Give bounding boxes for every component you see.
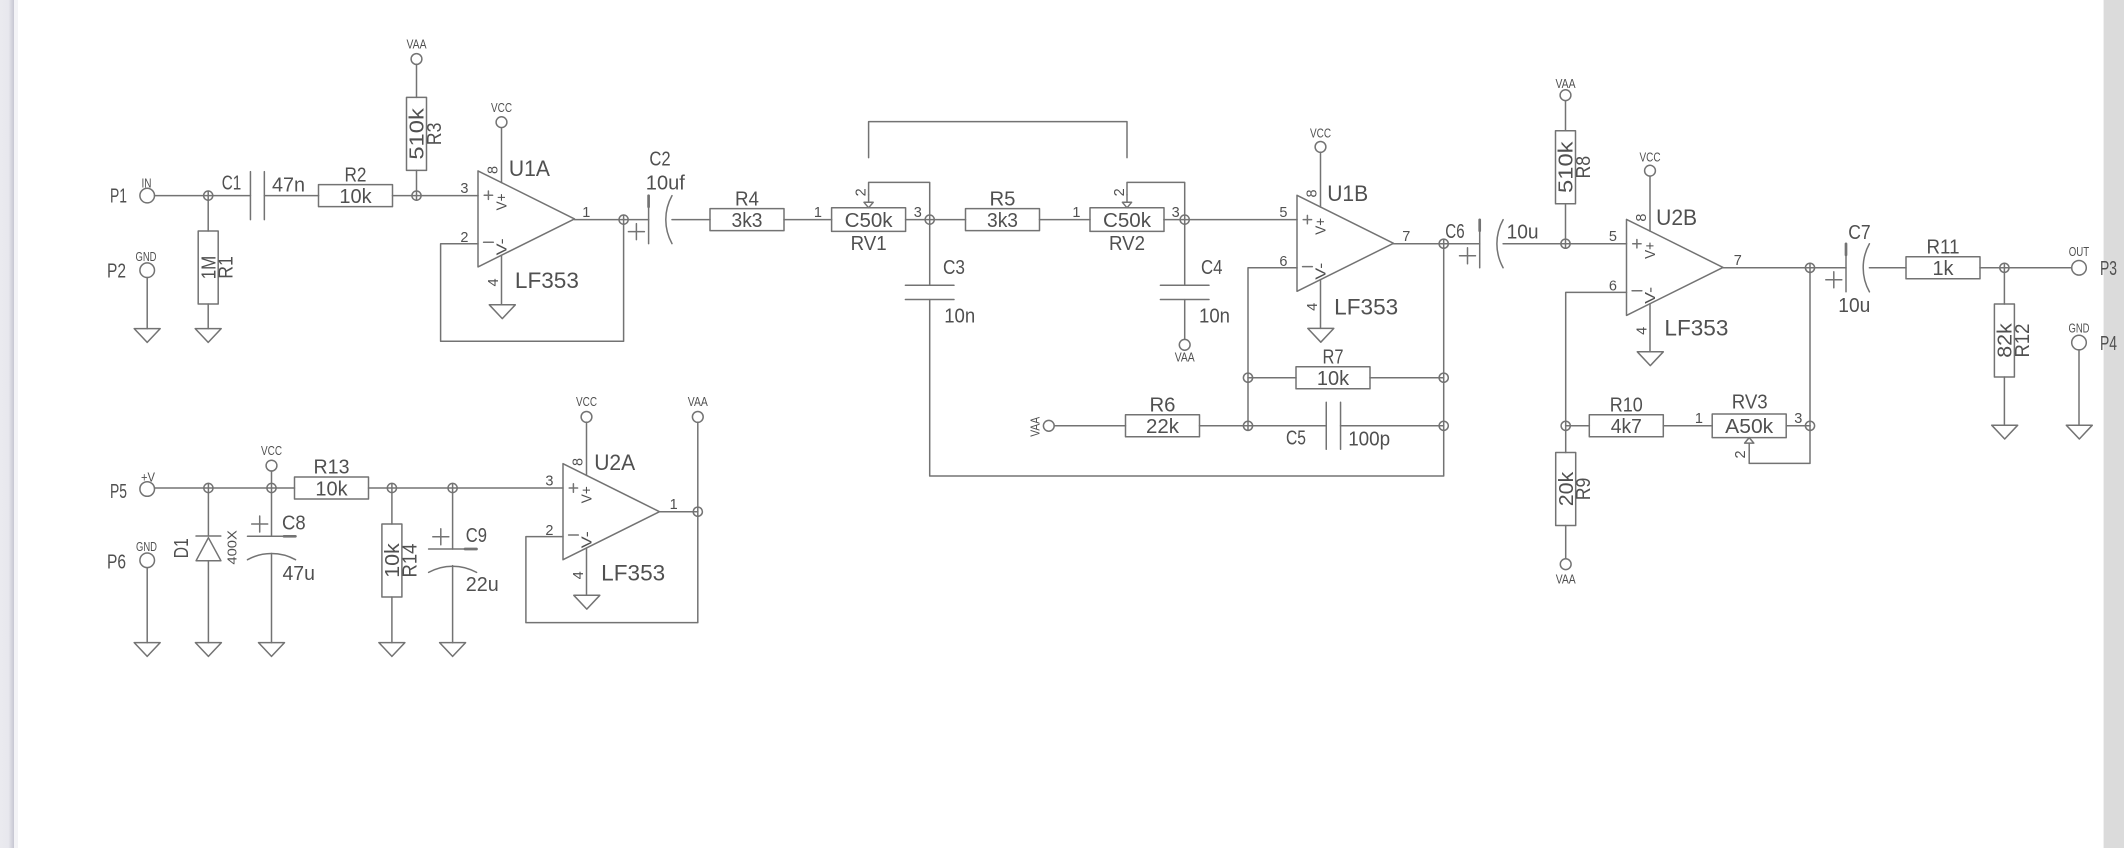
svg-text:P3: P3 [2100,258,2117,280]
node U2B out [1805,263,1814,272]
wire VCC to U1B pin8 [1320,152,1322,207]
op-amp U1A [478,171,575,267]
svg-text:8: 8 [571,458,587,466]
diode D1 [196,536,221,561]
wire node to R1 [207,191,209,231]
wire node to C8 [271,488,273,536]
svg-text:400X: 400X [224,530,239,565]
wire node to R12 [2003,263,2005,304]
svg-text:R13: R13 [314,457,350,479]
svg-text:C7: C7 [1848,222,1870,244]
wire C6 to U2B [1503,243,1626,245]
wire C5 to node [1341,425,1444,427]
node U1B out [1439,239,1448,248]
svg-text:10n: 10n [1199,305,1230,327]
wire R3 to node [416,170,418,200]
svg-text:R9: R9 [1573,478,1595,501]
svg-text:VCC: VCC [491,100,512,115]
svg-text:5: 5 [1609,229,1617,245]
wire P4 to ground [2078,350,2080,425]
resistor R13 [295,477,369,499]
wire R11 to P3 [1980,267,2072,269]
wire RV3 to node [1786,425,1810,427]
node U1A out [619,215,628,224]
power VCC (U2B) [1645,165,1656,176]
svg-text:R2: R2 [345,164,367,186]
svg-text:C5: C5 [1286,428,1306,450]
resistor R10 [1589,415,1663,437]
svg-text:C50k: C50k [1103,210,1152,232]
svg-text:8: 8 [486,166,502,174]
wire U2A output [660,511,698,513]
node RV2-3/C4/U1B+ [1180,215,1189,224]
wire node to C5 [1248,425,1326,427]
capacitor C9 [429,548,477,550]
svg-text:3k3: 3k3 [732,210,763,232]
ground P2 [134,329,160,343]
wire U1B pin6 branch [1248,268,1297,431]
svg-text:RV1: RV1 [851,233,887,255]
node R8/U2B+ [1561,239,1570,248]
svg-text:GND: GND [2069,321,2090,336]
ground U1B [1308,328,1334,342]
ground P4 [2066,425,2092,439]
wire R12 to ground [2003,377,2005,425]
svg-text:1: 1 [1695,411,1703,427]
capacitor C5 [1326,402,1340,449]
svg-text:47u: 47u [283,563,315,585]
node RV3-3 node [1805,421,1814,430]
ground U2B [1637,352,1663,366]
resistor R12 [1994,304,2014,377]
capacitor C7 [1845,244,1847,292]
power VAA (C4) [1179,339,1190,350]
svg-text:4: 4 [1305,303,1321,311]
svg-text:V+: V+ [1642,242,1659,259]
svg-text:VAA: VAA [1556,571,1576,586]
svg-text:C8: C8 [282,513,306,535]
svg-text:A50k: A50k [1725,416,1774,438]
svg-text:R3: R3 [424,123,446,146]
svg-text:GND: GND [136,249,157,264]
svg-text:3k3: 3k3 [987,210,1018,232]
power VCC (U2A) [581,412,592,423]
ground P6 [134,643,160,657]
svg-text:R5: R5 [990,188,1016,210]
svg-text:1k: 1k [1933,258,1955,280]
port P2 [140,263,155,278]
svg-text:8: 8 [1634,214,1650,222]
wire U1A pin4 to ground [501,255,503,305]
power VAA (U2A out) [692,412,703,423]
power VCC (U1A) [496,117,507,128]
svg-text:P1: P1 [110,186,127,208]
svg-text:RV3: RV3 [1732,392,1768,414]
wire P5 rail [155,487,295,489]
op-amp U1B [1297,195,1394,291]
potentiometer RV3 [1712,414,1786,438]
svg-text:R8: R8 [1573,156,1595,179]
svg-text:4k7: 4k7 [1611,416,1642,438]
svg-text:2: 2 [1733,450,1749,458]
wire node to R10 [1566,425,1590,427]
wire R10 to RV3 [1663,425,1712,427]
RV2 wiper [1122,195,1131,208]
node C5 right [1439,421,1448,430]
resistor R11 [1906,257,1980,279]
power VAA (R6) [1043,420,1054,431]
svg-text:V-: V- [1312,263,1329,280]
svg-text:4: 4 [1634,327,1650,335]
wire U1B output [1394,243,1480,245]
svg-text:R14: R14 [399,544,421,578]
node U2A out / VAA [693,507,702,516]
node C9 node [448,483,457,492]
node P1/R1/C1 [204,191,213,200]
svg-text:3: 3 [545,473,553,489]
wire VCC to U1A pin8 [501,128,503,183]
node R6/C5 left [1243,421,1252,430]
wire VAA to R3 [416,64,418,97]
wire C1 to R2 [264,195,318,197]
svg-text:22k: 22k [1146,416,1180,438]
svg-text:3: 3 [914,205,922,221]
port P4 [2072,335,2087,350]
RV3 wiper [1745,438,1754,451]
svg-text:RV2: RV2 [1109,233,1145,255]
power VCC (C8 node) [266,460,277,471]
node pin6/R7 [1243,373,1252,382]
svg-text:VAA: VAA [1027,417,1042,437]
wire R4 to RV1 [784,219,832,221]
capacitor C6 [1479,220,1481,268]
wire node to D1 [207,484,209,537]
svg-text:U2A: U2A [594,450,635,475]
svg-text:10k: 10k [315,478,348,500]
svg-text:C6: C6 [1445,221,1464,243]
wire RV2 to U1B [1164,219,1297,221]
wire node to C4 [1184,220,1186,286]
left scrollbar strip [0,0,14,848]
wire node to C9 [452,484,454,550]
svg-text:5: 5 [1279,205,1287,221]
ground R14 [379,643,405,657]
power VCC (U1B) [1315,142,1326,153]
svg-text:GND: GND [136,539,157,554]
wire R5 to RV2 [1040,219,1091,221]
svg-text:VCC: VCC [261,443,282,458]
wire U2B pin6 branch [1566,292,1627,425]
power VAA (R9) [1560,559,1571,570]
svg-text:V+: V+ [578,486,595,503]
wire RV2 wiper link [1127,182,1185,219]
svg-text:V+: V+ [1312,218,1329,235]
ground C9 [440,643,466,657]
resistor R8 [1556,131,1576,204]
op-amp U2A [563,464,660,560]
svg-text:R1: R1 [216,256,238,279]
wire node to C3 [929,220,931,286]
wire U2B pin4 to ground [1649,304,1651,352]
ground R1 [195,329,221,343]
wire node to R9 [1565,426,1567,453]
svg-text:10uf: 10uf [646,172,685,194]
svg-text:1: 1 [582,205,590,221]
svg-text:2: 2 [853,188,869,196]
svg-text:R4: R4 [735,188,759,210]
wire VCC to U2A pin8 [586,422,588,475]
resistor R5 [966,209,1040,231]
svg-text:V-: V- [1642,287,1659,304]
ground R12 [1992,425,2018,439]
svg-text:3: 3 [460,181,468,197]
svg-text:7: 7 [1402,229,1410,245]
svg-text:VCC: VCC [576,394,597,409]
svg-text:P5: P5 [110,481,127,503]
svg-text:LF353: LF353 [1664,315,1728,340]
svg-text:U1A: U1A [509,156,550,181]
svg-text:R11: R11 [1927,237,1960,259]
ground C8 [259,643,285,657]
svg-text:100p: 100p [1348,428,1390,450]
wire C9 to ground [452,566,454,643]
wire node to R14 [391,484,393,525]
svg-text:C2: C2 [649,149,670,171]
capacitor C2 [648,196,650,244]
svg-text:C4: C4 [1201,257,1223,279]
wire U1A output [575,219,649,221]
wire U2A pin4 to ground [586,548,588,595]
wire RV1 wiper link [869,182,930,219]
svg-text:10u: 10u [1838,295,1870,317]
svg-text:IN: IN [142,176,152,191]
port P6 [140,553,155,568]
svg-text:V-: V- [493,238,510,255]
resistor R3 [407,97,427,170]
ground U2A [574,595,600,609]
svg-text:2: 2 [1112,188,1128,196]
wire R7 to node [1370,377,1444,379]
wire U2A feedback loop [526,512,698,623]
wire R9 to VAA [1565,526,1567,559]
svg-text:LF353: LF353 [1334,294,1398,319]
wire P6 to ground [146,568,148,643]
svg-text:10n: 10n [944,305,975,327]
node R7 right [1439,373,1448,382]
svg-text:10k: 10k [1317,368,1350,390]
node RV1-3/R5/C3 [925,215,934,224]
svg-text:VAA: VAA [688,394,708,409]
wire VAA to R8 [1565,101,1567,131]
wire C7 to R11 [1869,267,1906,269]
svg-text:P2: P2 [107,261,126,283]
svg-text:VAA: VAA [407,37,427,52]
wire RV3 wiper link [1749,426,1810,464]
right panel strip [2104,0,2124,848]
resistor R6 [1126,415,1200,437]
wire U1A feedback loop [441,215,624,341]
port P3 [2072,261,2087,276]
svg-text:U2B: U2B [1656,205,1697,230]
svg-text:R7: R7 [1323,346,1344,368]
wire R1 to ground [207,304,209,329]
wire R2 to node [393,195,479,197]
node VCC/C8 [267,483,276,492]
wire VCC to U2B pin8 [1649,176,1651,231]
svg-text:VAA: VAA [1556,76,1576,91]
svg-text:LF353: LF353 [515,268,579,293]
svg-text:10u: 10u [1507,222,1539,244]
svg-text:+V: +V [141,470,155,485]
capacitor C4 [1160,285,1209,299]
potentiometer RV2 [1090,208,1164,232]
wire P1 to node [155,195,251,197]
svg-text:7: 7 [1734,253,1742,269]
power VAA (R3) [411,54,422,65]
node R11/R12/P3 [2000,263,2009,272]
svg-text:R10: R10 [1610,395,1643,417]
node P5/D1 [204,483,213,492]
capacitor C3 [905,285,954,299]
wire C8 to ground [271,554,273,643]
svg-text:VCC: VCC [1310,126,1331,141]
svg-text:C50k: C50k [845,210,894,232]
op-amp U2B [1627,219,1724,315]
wire RV1 to R5 [906,219,966,221]
ground D1 [195,643,221,657]
svg-text:VCC: VCC [1640,149,1661,164]
resistor R2 [319,185,393,207]
wire D1 to ground [207,561,209,643]
svg-text:D1: D1 [171,538,193,558]
ground U1A [489,305,515,319]
wire C3 to bottom loop [930,239,1444,476]
svg-text:LF353: LF353 [601,561,665,586]
svg-text:8: 8 [1305,189,1321,197]
port P1 [140,188,155,203]
svg-text:V-: V- [578,531,595,548]
wire VAA to R6 [1054,425,1125,427]
wire VCC to node [271,471,273,488]
svg-text:U1B: U1B [1327,181,1368,206]
potentiometer RV1 [832,208,906,232]
wire U1B pin4 to ground [1320,280,1322,329]
wire RV1 bracket [869,122,1127,158]
svg-text:1: 1 [670,497,678,513]
wire C2 to R4 [672,219,710,221]
svg-text:C9: C9 [466,525,487,547]
svg-text:3: 3 [1794,411,1802,427]
svg-text:10k: 10k [339,186,372,208]
svg-text:P6: P6 [107,552,126,574]
node R14 node [387,483,396,492]
wire R14 to ground [391,597,393,643]
RV1 wiper [864,195,873,208]
wire U2B output [1723,267,1846,269]
wire C4 to VAA [1184,300,1186,340]
svg-text:3: 3 [1172,205,1180,221]
port P5 [140,482,155,497]
svg-text:1: 1 [1072,205,1080,221]
svg-text:47n: 47n [272,175,305,197]
capacitor C8 [248,535,296,537]
node pin6/R9/R10 [1561,421,1570,430]
wire node to R7 [1248,377,1296,379]
power VAA (R8) [1560,90,1571,101]
wire R8 to node [1565,204,1567,249]
svg-text:VAA: VAA [1175,350,1195,365]
resistor R14 [382,524,402,597]
svg-text:C1: C1 [222,173,242,195]
svg-text:C3: C3 [943,257,965,279]
svg-text:V+: V+ [493,193,510,210]
wire R13 to U2A [369,487,564,489]
capacitor C1 [250,172,264,220]
wire P2 to ground [146,278,148,329]
node R2/R3/U1A+ [412,191,421,200]
svg-text:OUT: OUT [2069,244,2090,259]
resistor R9 [1556,453,1576,526]
wire R6 to node [1200,425,1249,427]
resistor R4 [710,209,784,231]
resistor R7 [1296,367,1370,389]
svg-text:4: 4 [571,571,587,579]
svg-text:P4: P4 [2100,333,2117,355]
wire VAA to node [697,422,699,511]
svg-text:R12: R12 [2012,324,2034,358]
svg-text:22u: 22u [466,574,499,596]
resistor R1 [198,231,218,304]
wire out node to RV3 node [1809,263,1811,426]
svg-text:R6: R6 [1150,395,1176,417]
svg-text:1: 1 [814,205,822,221]
svg-text:4: 4 [486,278,502,286]
